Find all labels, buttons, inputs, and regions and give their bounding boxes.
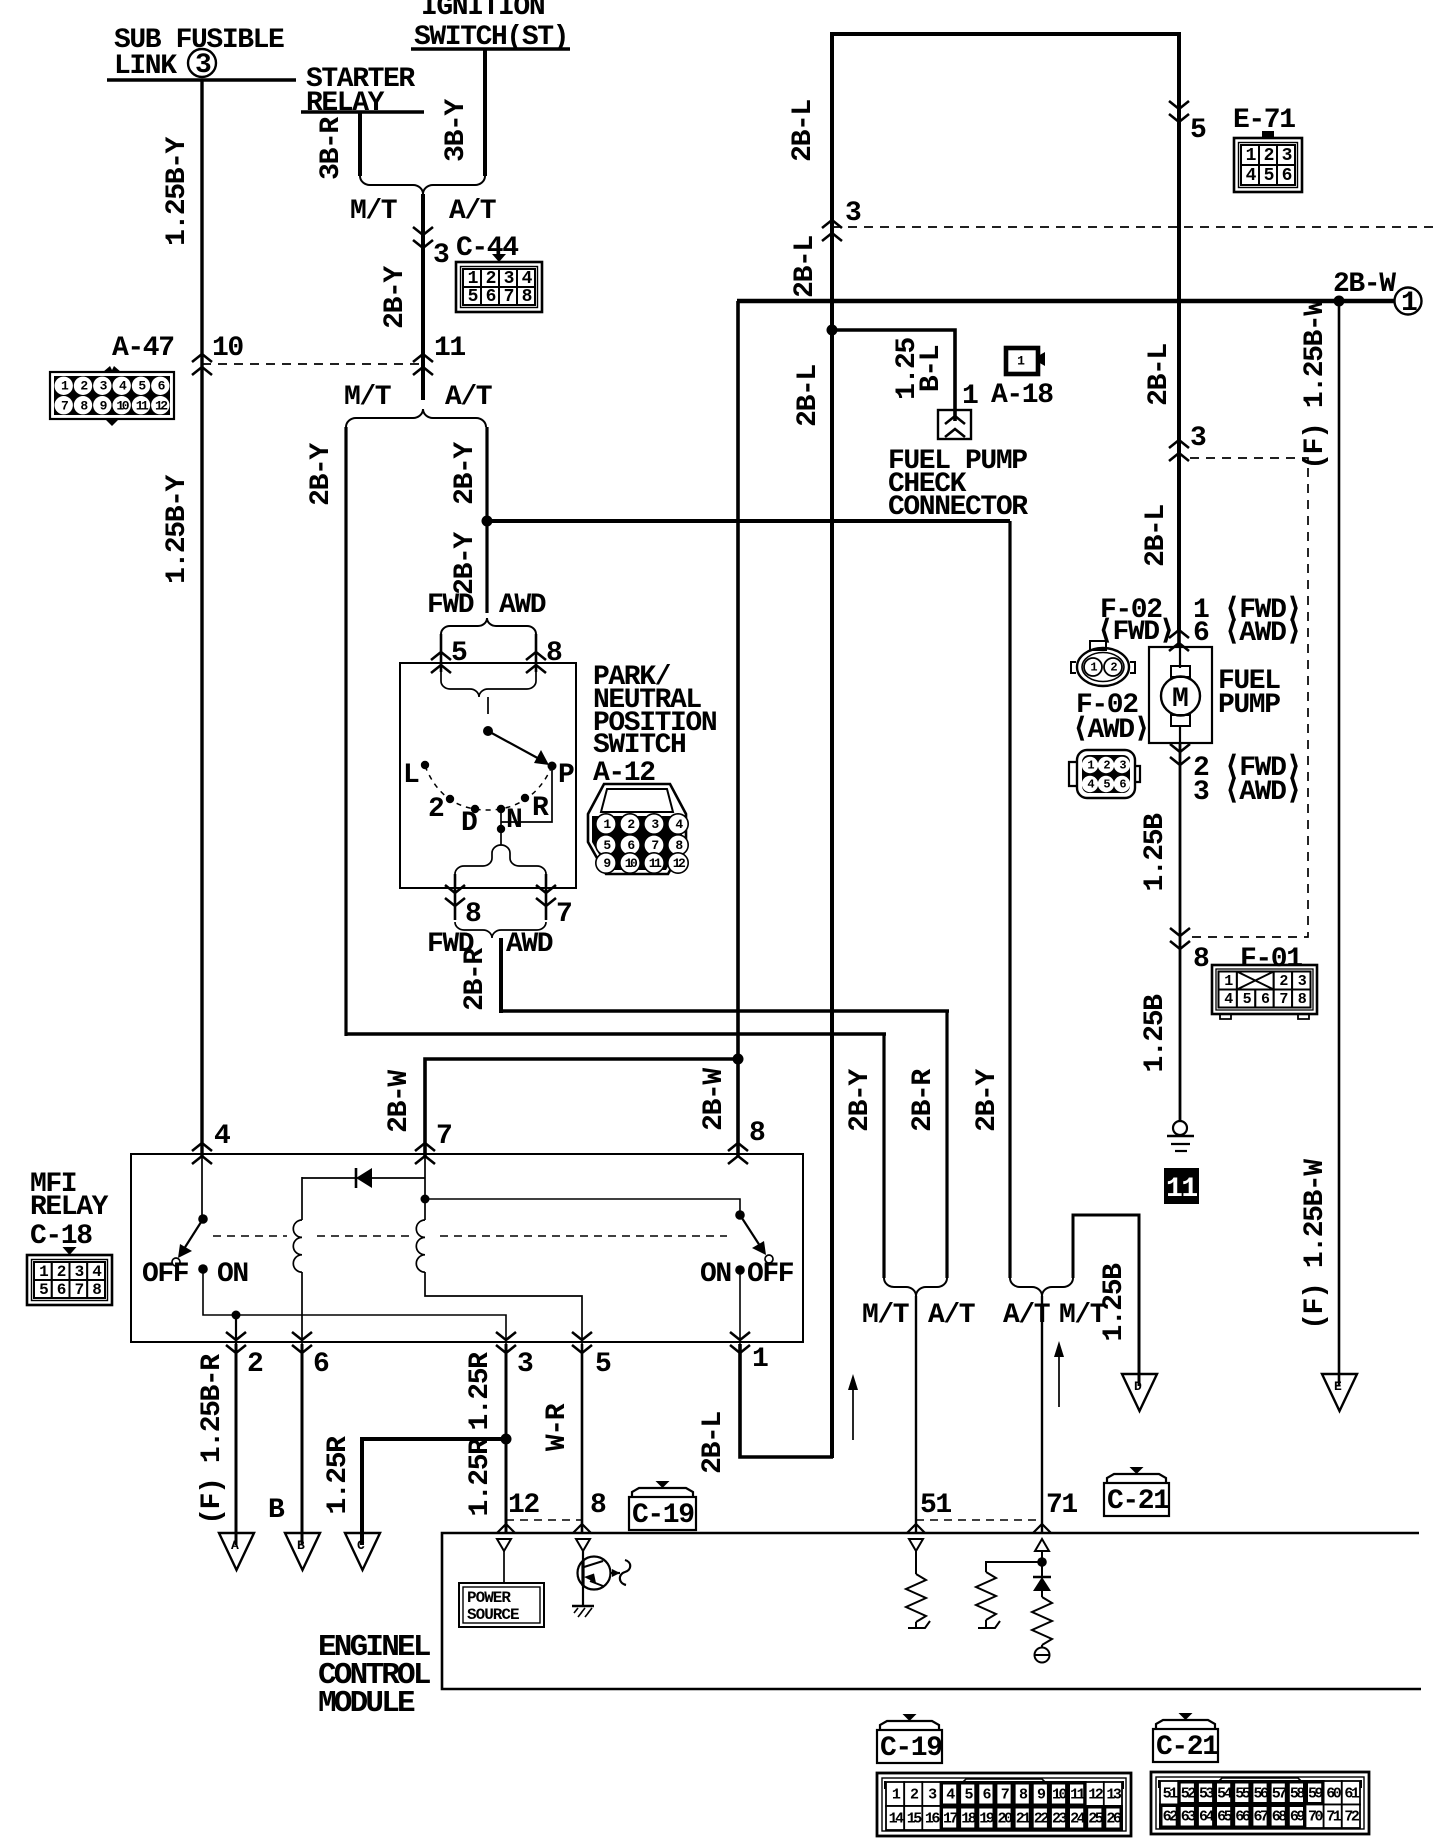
svg-text:(F) 1.25B-W: (F) 1.25B-W: [1300, 1159, 1331, 1330]
connector arrow pin 2: [226, 1332, 246, 1353]
svg-text:C-18: C-18: [30, 1221, 92, 1252]
svg-text:AWD: AWD: [506, 929, 553, 960]
wire 1.25B-Y vertical: [200, 80, 203, 1156]
junction node 2B-W: [733, 1054, 744, 1065]
svg-text:3: 3: [1190, 423, 1206, 454]
ground ref box 11: [1164, 1168, 1199, 1204]
wire 1.25B M/T to ref D: [1073, 1215, 1139, 1386]
connector C-21 small label box: [1104, 1467, 1169, 1517]
svg-text:1: 1: [752, 1344, 768, 1375]
svg-text:8: 8: [749, 1118, 765, 1149]
svg-text:67: 67: [1253, 1809, 1268, 1826]
contact R: [521, 794, 529, 802]
wire 2B-L relay pin1 to column: [740, 1344, 833, 1457]
wire 2B-Y A/T branch: [485, 427, 488, 613]
relay body box: [131, 1154, 803, 1342]
svg-text:M: M: [1172, 684, 1188, 715]
svg-text:N: N: [506, 805, 521, 836]
connector arrow pin 10 (A-47): [192, 354, 212, 375]
connector arrow pin 7 exit: [536, 885, 556, 906]
svg-text:2B-R: 2B-R: [908, 1069, 939, 1132]
svg-text:5: 5: [1264, 166, 1274, 186]
svg-text:B-L: B-L: [916, 345, 947, 392]
svg-text:3: 3: [517, 1349, 533, 1380]
inner brace merging pins 5,8: [441, 672, 536, 697]
brace merging M/T A/T starter feeds: [360, 176, 485, 194]
connector C-19 small label box: [629, 1481, 696, 1531]
wire 2B-R horizontal: [501, 1009, 949, 1013]
svg-text:5: 5: [1190, 115, 1206, 146]
relay diode: [302, 1177, 425, 1179]
svg-text:2B-W: 2B-W: [699, 1068, 730, 1131]
brace splitting FWD/AWD: [441, 618, 536, 634]
junction node pin2: [232, 1311, 241, 1320]
contact D: [471, 805, 479, 813]
svg-text:MODULE: MODULE: [318, 1686, 415, 1721]
svg-text:(F) 1.25B-R: (F) 1.25B-R: [197, 1354, 228, 1525]
svg-text:A/T: A/T: [928, 1300, 975, 1331]
svg-text:2B-W: 2B-W: [384, 1070, 415, 1133]
svg-text:3: 3: [433, 240, 449, 271]
wire (F)1.25B-R pin 2 to ref A: [235, 1344, 238, 1545]
wire 2B-Y M/T down to brace: [882, 1034, 885, 1278]
wire to pin 7 exit: [545, 874, 548, 920]
connector A-12 pin face: [588, 784, 688, 874]
ref triangle C: [345, 1533, 380, 1570]
relay coil 1: [301, 1177, 303, 1220]
svg-text:L: L: [403, 760, 419, 791]
svg-text:2B-L: 2B-L: [788, 100, 819, 162]
relay switch 2: [735, 1210, 745, 1220]
svg-text:51: 51: [920, 1490, 951, 1521]
svg-text:3B-Y: 3B-Y: [441, 99, 472, 162]
wire to pin 8: [535, 634, 538, 672]
svg-text:1: 1: [1401, 288, 1417, 319]
connector arrow pin 5: [572, 1332, 592, 1353]
wire B pin 6 to ref B: [301, 1344, 304, 1545]
svg-text:3: 3: [845, 198, 861, 229]
transistor input triangle: [576, 1539, 590, 1551]
connector C-18 pin box: [27, 1247, 112, 1305]
svg-text:12: 12: [508, 1490, 539, 1521]
relay switch 1: [201, 1156, 203, 1219]
resistor R71b: [1041, 1591, 1043, 1597]
svg-text:2: 2: [1264, 146, 1274, 166]
svg-text:8: 8: [546, 638, 562, 669]
svg-text:2B-Y: 2B-Y: [306, 443, 337, 506]
svg-text:C-19: C-19: [880, 1733, 942, 1764]
ref triangle E: [1322, 1374, 1357, 1411]
svg-text:7: 7: [556, 899, 571, 930]
wire 1.25R pin 3: [505, 1344, 508, 1533]
connector arrow pin 8 exit: [445, 885, 465, 906]
wire 2B-W to relay pin 7: [425, 1059, 738, 1156]
resistor R51: [915, 1551, 917, 1574]
junction node 1.25R: [501, 1434, 512, 1445]
wire to pin 8 exit: [454, 874, 457, 920]
wire 2B-Y M/T horizontal run: [346, 1032, 886, 1035]
svg-text:C-19: C-19: [632, 1500, 694, 1531]
svg-text:OFF: OFF: [747, 1259, 794, 1290]
wire (F) 1.25B-W down: [1338, 301, 1341, 1386]
contact N: [497, 805, 505, 813]
junction below N: [497, 825, 505, 833]
junction node to (F) 1.25B-W: [1334, 296, 1345, 307]
dashed connector line A-47 10-11: [202, 363, 423, 365]
resistor R71a: [986, 1562, 1042, 1572]
svg-text:57: 57: [1272, 1785, 1287, 1802]
svg-text:RELAY: RELAY: [30, 1192, 109, 1223]
junction node: [1037, 1557, 1047, 1567]
svg-text:3: 3: [195, 50, 211, 81]
relay coil 2: [424, 1156, 426, 1220]
wire 1.25B-L to check connector: [832, 330, 955, 421]
svg-text:3 ⟨AWD⟩: 3 ⟨AWD⟩: [1193, 777, 1301, 808]
connector arrow pin 3 (C-44): [413, 227, 433, 248]
svg-text:⟨FWD⟩: ⟨FWD⟩: [1097, 617, 1174, 648]
ignition switch bus bar: [411, 47, 570, 51]
svg-text:PUMP: PUMP: [1218, 690, 1280, 721]
wire 2B-Y A/T column down: [1008, 521, 1011, 1278]
svg-text:3B-R: 3B-R: [316, 117, 347, 180]
connector A-47 pin box: [50, 366, 174, 426]
connector arrow pin 8 (F-01): [1170, 928, 1190, 949]
relay contact output wire: [203, 1269, 506, 1344]
svg-text:IGNITION: IGNITION: [421, 0, 544, 23]
connector C-19 label box: [880, 1721, 939, 1730]
contact 2: [446, 795, 454, 803]
svg-text:C-44: C-44: [456, 233, 518, 264]
power source input triangle: [497, 1539, 511, 1551]
connector F-02 FWD icon: [1071, 641, 1135, 686]
connector C-19 pin box: [877, 1773, 1131, 1836]
svg-text:1.25B: 1.25B: [1140, 813, 1171, 892]
wire 2B-R down to brace: [945, 1011, 948, 1278]
brace splitting switch output FWD/AWD: [455, 845, 546, 874]
svg-text:F-01: F-01: [1240, 944, 1302, 975]
wire from P to N column: [501, 766, 552, 822]
wire to ECM pin 71: [1041, 1296, 1043, 1533]
svg-text:B: B: [268, 1495, 285, 1526]
dashed connector line E-71: [832, 226, 1440, 228]
junction node 2B-Y: [482, 516, 493, 527]
svg-text:ON: ON: [700, 1259, 731, 1290]
flow arrow up 1: [852, 1382, 854, 1440]
svg-text:6: 6: [1282, 166, 1292, 186]
power source box: [459, 1583, 544, 1627]
connector arrow F-02 pin 1/6: [1169, 630, 1189, 651]
svg-text:OFF: OFF: [142, 1259, 189, 1290]
wire N down: [500, 809, 502, 845]
svg-text:2B-Y: 2B-Y: [380, 266, 411, 329]
wire 2B-L left column: [830, 34, 834, 1458]
svg-text:1: 1: [962, 381, 978, 412]
transistor: [582, 1551, 584, 1605]
wire 2B-L to fuel pump: [1177, 455, 1181, 648]
svg-text:6: 6: [313, 1349, 329, 1380]
svg-text:1.25R: 1.25R: [323, 1436, 354, 1515]
pin 51 pull-up triangle: [909, 1539, 923, 1551]
svg-text:5: 5: [595, 1349, 611, 1380]
svg-text:6: 6: [486, 287, 496, 307]
wire to ECM pin 51: [915, 1296, 917, 1533]
connector arrow pin 5: [431, 652, 451, 673]
svg-text:1.25R: 1.25R: [465, 1438, 496, 1517]
svg-text:71: 71: [1046, 1490, 1077, 1521]
svg-text:A-18: A-18: [991, 380, 1053, 411]
svg-text:7: 7: [504, 287, 514, 307]
svg-text:4: 4: [214, 1121, 230, 1152]
ground (body earth): [1173, 1121, 1187, 1135]
ECM pin entry chevrons: [497, 1524, 1051, 1533]
svg-text:1.25B-Y: 1.25B-Y: [162, 136, 193, 245]
dashed contact arc: [425, 766, 552, 810]
svg-text:A-47: A-47: [112, 333, 174, 364]
wire 2B-Y M/T branch: [344, 427, 347, 1036]
relay internal dashed link: [213, 1235, 287, 1237]
circled joint 1: [1395, 288, 1422, 315]
svg-text:FWD: FWD: [427, 590, 474, 621]
analog output terminal: [1035, 1648, 1050, 1663]
svg-text:10: 10: [212, 333, 243, 364]
transistor ground: [572, 1605, 594, 1607]
svg-text:2B-W: 2B-W: [1333, 269, 1396, 300]
svg-text:1.25R: 1.25R: [465, 1352, 496, 1431]
zener diode: [1033, 1576, 1051, 1579]
connector C-21 label box: [1156, 1720, 1215, 1729]
svg-text:CONNECTOR: CONNECTOR: [888, 492, 1028, 523]
switch arm to P: [488, 731, 543, 761]
svg-text:3: 3: [1282, 146, 1292, 166]
svg-text:6 ⟨AWD⟩: 6 ⟨AWD⟩: [1193, 618, 1301, 649]
connector arrow pin 5 (E-71): [1169, 101, 1189, 122]
2B-W horizontal bus: [737, 299, 1395, 304]
svg-text:5: 5: [468, 287, 478, 307]
wire 1.25R to ref C: [362, 1439, 506, 1545]
wire 2B-W to relay pin 8: [736, 1059, 740, 1156]
connector C-21 pin box: [1151, 1772, 1369, 1834]
contact L: [421, 761, 429, 769]
starter relay bus bar: [301, 110, 424, 114]
wire 2B-L right column: [1177, 34, 1181, 632]
svg-text:A/T: A/T: [449, 196, 496, 227]
data link icon A-18: [1006, 348, 1045, 374]
connector arrow pin 3 (F-01): [1169, 440, 1189, 461]
fuel pump motor M: [1179, 647, 1181, 668]
svg-text:7: 7: [1279, 991, 1287, 1008]
svg-text:1.25B: 1.25B: [1140, 994, 1171, 1073]
connector arrow pin 8: [526, 652, 546, 673]
svg-text:M/T: M/T: [350, 196, 397, 227]
connector arrow pin 11: [413, 354, 433, 375]
svg-text:W-R: W-R: [542, 1403, 573, 1451]
svg-text:2B-L: 2B-L: [1141, 505, 1172, 567]
svg-text:11: 11: [1166, 1174, 1197, 1205]
wire 2B-Y horizontal to A/T column: [487, 519, 1010, 523]
2B-L top bus: [830, 32, 1181, 36]
svg-text:ON: ON: [217, 1259, 248, 1290]
connector arrow pin 3: [496, 1332, 516, 1353]
connector E-71 pin box: [1234, 131, 1302, 192]
svg-text:2B-L: 2B-L: [790, 236, 821, 298]
connector F-02 AWD icon: [1069, 750, 1140, 798]
svg-text:(F) 1.25B-W: (F) 1.25B-W: [1300, 299, 1331, 470]
connector C-44 pin box: [456, 254, 542, 312]
wire 3B-R: [358, 112, 362, 176]
connector arrow F-02 pin 2/3: [1179, 743, 1182, 1122]
brace merging A/T M/T to pin 71: [1010, 1278, 1073, 1296]
connector arrow pin 1: [730, 1332, 750, 1353]
svg-text:C-21: C-21: [1156, 1732, 1218, 1763]
connector arrow pin 4: [192, 1143, 212, 1164]
svg-text:C-21: C-21: [1107, 1486, 1169, 1517]
svg-text:2B-Y: 2B-Y: [450, 532, 481, 595]
wire W-R pin 5 to ECM pin 8: [581, 1344, 584, 1533]
dashed connector outline F-01: [1190, 458, 1308, 937]
fuel pump body box: [1149, 647, 1212, 743]
wire 2B-Y from brace: [421, 194, 425, 400]
ref triangle D: [1122, 1374, 1157, 1411]
circled 3 (fusible link number): [188, 49, 216, 77]
svg-text:1.25B-Y: 1.25B-Y: [162, 474, 193, 583]
flow arrow up 2: [1058, 1349, 1060, 1407]
svg-text:2B-L: 2B-L: [793, 365, 824, 427]
svg-text:POWER: POWER: [467, 1589, 511, 1607]
contact P: [548, 762, 557, 771]
svg-text:7: 7: [436, 1121, 451, 1152]
svg-text:M/T: M/T: [862, 1300, 909, 1331]
svg-text:2B-Y: 2B-Y: [972, 1069, 1003, 1132]
pin 71 input triangle: [1035, 1539, 1049, 1551]
svg-text:17: 17: [943, 1811, 958, 1828]
svg-text:SWITCH: SWITCH: [593, 730, 685, 761]
svg-text:2: 2: [428, 794, 444, 825]
svg-text:8: 8: [1193, 944, 1209, 975]
svg-text:1: 1: [1017, 354, 1025, 369]
svg-text:8: 8: [522, 287, 532, 307]
brace merging FWD/AWD into 2B-R: [455, 922, 546, 938]
wire 2B-W left column down: [736, 301, 740, 1060]
connector arrow pin 3 (E-71): [822, 220, 842, 241]
svg-text:M/T: M/T: [344, 382, 391, 413]
svg-text:2B-L: 2B-L: [1144, 344, 1175, 406]
svg-text:2B-L: 2B-L: [698, 1412, 729, 1474]
ref triangle A: [219, 1533, 254, 1570]
svg-text:R: R: [532, 793, 549, 824]
ECM body box: [442, 1533, 1421, 1689]
svg-text:RELAY: RELAY: [306, 88, 385, 119]
brace merging 2B-Y/2B-R M/T A/T to pin 51: [884, 1278, 947, 1296]
svg-text:2: 2: [247, 1349, 263, 1380]
wire to pin 5: [440, 634, 443, 672]
ref triangle B: [285, 1533, 320, 1570]
svg-text:AWD: AWD: [499, 590, 546, 621]
switch pivot node: [483, 726, 493, 736]
svg-text:2B-Y: 2B-Y: [450, 442, 481, 505]
connector arrow pin 6: [292, 1332, 312, 1353]
sub fusible link bus bar: [107, 78, 296, 82]
dashed connector line C-21 pins 51-71: [916, 1519, 1042, 1521]
svg-text:1.25B: 1.25B: [1099, 1263, 1130, 1342]
svg-text:2B-R: 2B-R: [460, 948, 491, 1011]
svg-text:8: 8: [590, 1490, 606, 1521]
connector F-01 pin box: [1212, 965, 1317, 1019]
fuel pump check connector terminal box: [938, 410, 971, 439]
svg-text:8: 8: [465, 899, 481, 930]
wire 2B-R down: [499, 938, 503, 1013]
relay switch 2 feed: [425, 1199, 740, 1215]
svg-text:D: D: [461, 808, 477, 839]
svg-text:P: P: [558, 760, 574, 791]
dashed connector line C-19 pins 12-8: [506, 1519, 582, 1521]
svg-text:5: 5: [451, 638, 467, 669]
switch common stem: [487, 697, 489, 714]
svg-text:LINK: LINK: [114, 51, 177, 82]
junction node to check connector: [827, 325, 838, 336]
svg-text:A/T: A/T: [445, 382, 492, 413]
wire 3B-Y: [483, 49, 487, 176]
svg-text:⟨AWD⟩: ⟨AWD⟩: [1072, 715, 1149, 746]
svg-text:2B-Y: 2B-Y: [845, 1069, 876, 1132]
svg-text:SOURCE: SOURCE: [467, 1606, 519, 1624]
svg-text:11: 11: [434, 333, 465, 364]
park/neutral switch body box: [400, 663, 576, 888]
